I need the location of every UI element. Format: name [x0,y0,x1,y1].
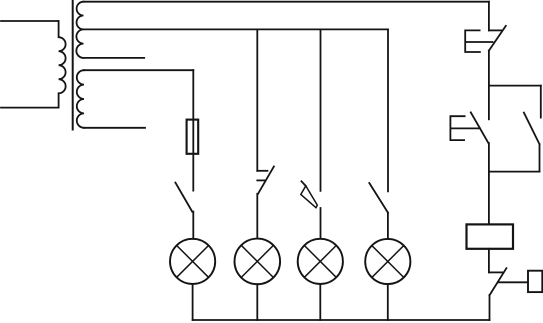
lamp L4 [365,239,410,284]
transformer T secondary winding lower [77,70,84,128]
switch S2 blade [258,167,274,194]
wire: left pole feed [488,86,490,120]
wire: bottom bus [193,319,490,321]
wire: branch 1 vertical from tap D [192,70,194,190]
switch S1 blade [175,183,192,212]
fuse F1 [187,120,199,154]
relay coil (electromagnet) [467,224,514,248]
double-pole switch K2 jaw contact [450,116,480,140]
lamp L2 [234,239,280,285]
wire: K2 left pole out [488,143,490,172]
switch S3 blade (wedge) [301,186,318,208]
wire: branch 3 switch to lamp [320,208,322,239]
wire: secondary tap D feeding fuse branch [84,69,193,71]
lamp L3 [298,239,343,284]
wire: unused secondary tap E [84,127,145,129]
wire: branch 4 switch to lamp [387,213,389,239]
wire: branch 2 vertical from tap B [256,29,258,170]
double-pole switch K2 right blade [524,113,540,145]
transformer T core [72,1,74,130]
double-pole switch K2 left blade [471,112,489,143]
wire: lamp L2 to bottom bus [256,284,258,320]
wire: branch 1 switch to lamp [192,212,194,239]
wire: lamp L1 to bottom bus [192,284,194,320]
wire: contact to terminal box [498,281,528,283]
relay contact fixed tick [489,271,503,273]
knife switch K1 jaw contact [465,30,492,52]
wire: branch 2 switch to lamp [256,194,258,239]
wire: lamp L4 to bottom bus [387,284,389,320]
wire: contact down to bottom bus [489,295,491,320]
wire: branch 4 vertical from tap B [387,29,389,191]
wire: coil to contact [488,249,490,273]
switch S3 blade tick [302,181,307,186]
transformer T primary bottom lead [1,107,59,109]
wire: poles rejoin connector [489,171,540,173]
double-pole switch K2 right pole fixed contact [540,86,542,118]
switch S4 blade [369,183,388,213]
relay contact blade [490,268,507,295]
wire: top secondary tap A to right side [84,1,489,3]
transformer T primary winding [59,21,66,108]
transformer T secondary winding upper (center-tapped) [76,2,83,58]
switch S2 fixed contact [257,170,267,172]
knife switch K1 wire stub [489,29,502,31]
wire: right feeder down from tap A [488,2,490,31]
knife switch K1 blade [489,26,506,51]
lamp L1 [170,239,215,284]
wire: K1 to double-pole switch [488,51,490,86]
wire: unused secondary tap C [84,57,145,59]
switch S2 lower contact tick [257,179,265,181]
transformer T primary top lead [1,20,59,22]
wire: lamp L3 to bottom bus [319,284,321,320]
wire: branch 3 vertical from tap B [320,29,322,190]
wire: secondary tap B feeding lamp branches [84,28,389,30]
terminal box [528,271,542,292]
wire: to relay coil [488,172,490,225]
wire: split to right pole [489,85,541,87]
wire: K2 right pole out [539,144,541,171]
